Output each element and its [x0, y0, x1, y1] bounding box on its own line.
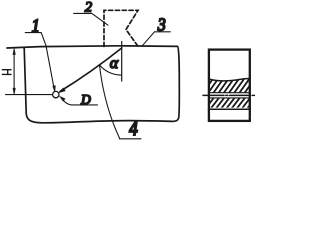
H dimension line	[13, 50, 15, 94]
svg-text:α: α	[110, 55, 119, 72]
defect circle	[53, 91, 59, 97]
lower band bottom boundary	[208, 108, 250, 110]
beam line with arrowhead at defect	[60, 48, 122, 91]
H lower extension line	[6, 94, 53, 96]
test block outline	[7, 46, 179, 123]
wavy fusion line	[209, 79, 251, 81]
weld axis centerline	[203, 94, 256, 96]
transducer (probe) dashed outline	[104, 10, 138, 46]
label H	[2, 70, 11, 75]
angle alpha arc	[100, 65, 122, 75]
normal (vertical) line	[121, 42, 123, 82]
upper band bottom boundary	[208, 92, 250, 94]
side view rectangle	[209, 50, 250, 121]
lower band top boundary	[208, 97, 250, 99]
svg-text:4: 4	[129, 118, 138, 141]
